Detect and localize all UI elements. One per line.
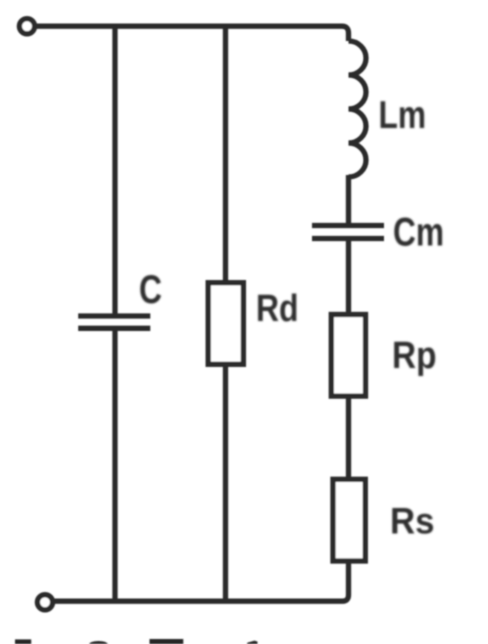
- svg-text:Cm: Cm: [393, 211, 444, 255]
- svg-text:C: C: [139, 268, 162, 312]
- svg-text:Rd: Rd: [256, 288, 299, 330]
- svg-text:Rs: Rs: [390, 500, 435, 542]
- svg-text:Lm: Lm: [379, 94, 427, 137]
- svg-text:Rp: Rp: [392, 335, 437, 377]
